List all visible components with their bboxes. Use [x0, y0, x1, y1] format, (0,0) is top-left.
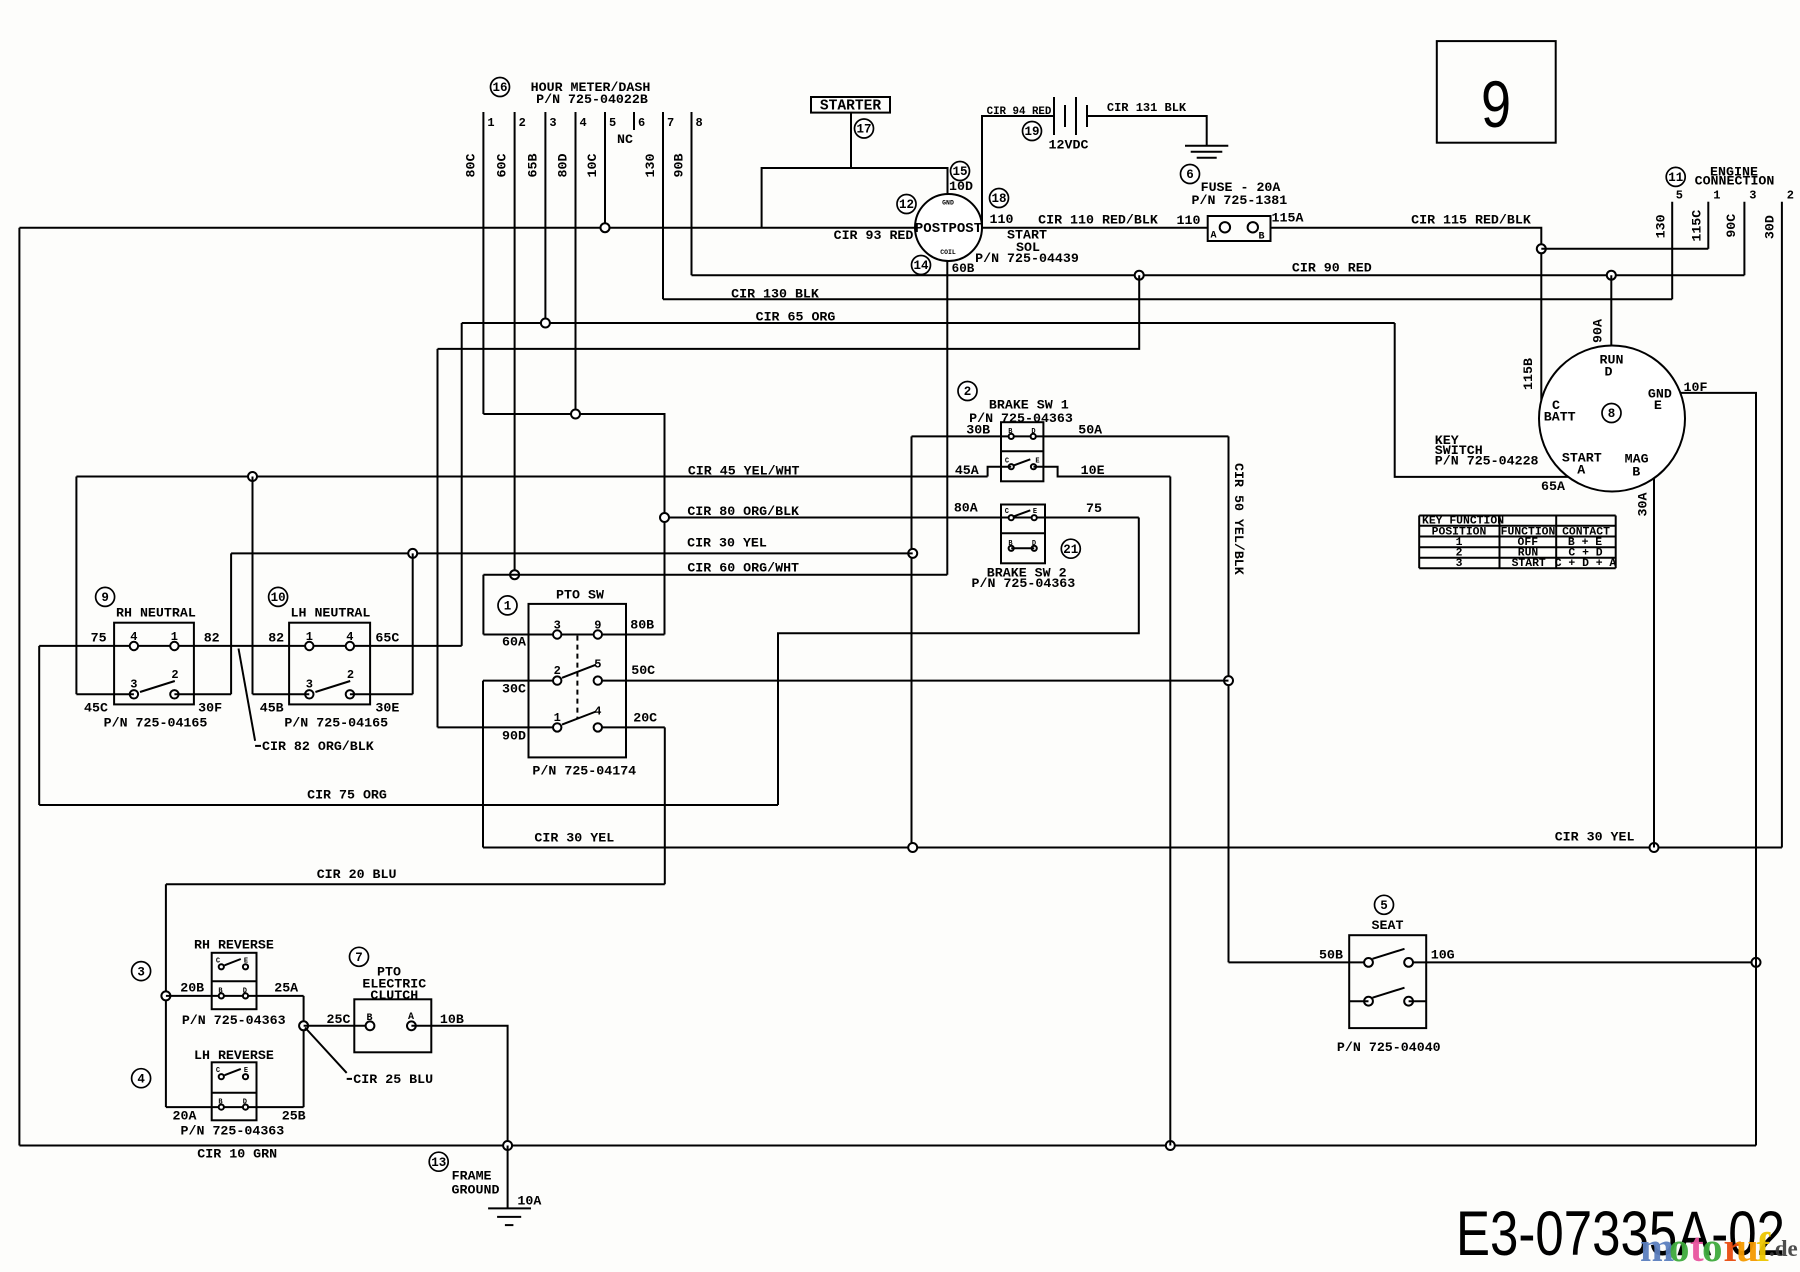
seat contacts row2 with arm — [1364, 997, 1373, 1006]
svg-text:B: B — [1632, 465, 1640, 480]
wire CIR 20 BLU — [166, 883, 665, 885]
wire 60A/80B row — [483, 634, 664, 636]
frame ground (item 13) — [429, 1152, 448, 1171]
svg-text:10: 10 — [271, 591, 286, 605]
wire main bus left border vertical — [18, 228, 20, 1146]
svg-text:FRAME: FRAME — [452, 1168, 492, 1183]
svg-text:60B: 60B — [952, 262, 975, 276]
svg-text:D: D — [1032, 540, 1036, 548]
hour meter pin 8 wire (90B) — [691, 112, 693, 275]
junction 30B-CIR30 upper — [908, 549, 917, 558]
svg-text:16: 16 — [492, 81, 507, 95]
LH neutral switch (item 10) — [269, 587, 288, 606]
svg-text:CIR 20 BLU: CIR 20 BLU — [317, 867, 397, 882]
wire main bus y227 left segment — [19, 227, 915, 229]
svg-text:CIR 93 RED: CIR 93 RED — [834, 228, 914, 243]
svg-text:P/N 725-04174: P/N 725-04174 — [532, 764, 636, 779]
svg-text:E: E — [1654, 398, 1662, 413]
starter box (item 17) — [811, 97, 890, 113]
junction 30A on CIR30 lower — [1650, 843, 1659, 852]
svg-text:B: B — [1258, 232, 1264, 243]
svg-text:o: o — [1702, 1224, 1723, 1270]
svg-text:4: 4 — [346, 630, 353, 644]
svg-text:30C: 30C — [502, 682, 526, 697]
svg-text:50A: 50A — [1078, 422, 1102, 437]
wire 45C vertical — [75, 477, 77, 695]
RH reverse switch (item 3) — [132, 962, 151, 981]
svg-text:D: D — [1031, 428, 1035, 436]
junction CIR90-90 bus — [1135, 271, 1144, 280]
svg-text:P/N 725-04165: P/N 725-04165 — [284, 715, 388, 730]
svg-text:45B: 45B — [260, 701, 284, 716]
svg-text:D: D — [243, 1099, 247, 1107]
svg-text:CIR 110 RED/BLK: CIR 110 RED/BLK — [1038, 213, 1158, 228]
svg-text:10A: 10A — [517, 1194, 541, 1209]
svg-text:90D: 90D — [502, 729, 526, 744]
svg-text:1: 1 — [1713, 189, 1720, 203]
hour meter pin 1 wire (80C) — [482, 112, 484, 414]
fuse 20A (item 6) — [1181, 165, 1200, 184]
svg-text:C: C — [216, 957, 220, 965]
wire 25A down to node — [303, 996, 305, 1107]
svg-text:14: 14 — [913, 259, 929, 273]
svg-text:3: 3 — [137, 965, 145, 979]
svg-text:o: o — [1669, 1224, 1690, 1270]
junction 20B — [161, 991, 170, 1000]
svg-text:130: 130 — [1653, 214, 1668, 238]
svg-text:1: 1 — [504, 600, 512, 614]
callout CIR 82 ORG/BLK — [239, 649, 256, 741]
svg-text:75: 75 — [91, 630, 107, 645]
hour meter pin 6 wire (NC) — [633, 112, 635, 130]
hour meter/dash component label (item 16) — [491, 78, 510, 97]
svg-text:.de: .de — [1769, 1236, 1798, 1261]
LH neutral contacts row2 with arm — [305, 690, 313, 698]
svg-text:18: 18 — [991, 192, 1006, 206]
svg-text:25B: 25B — [282, 1108, 306, 1123]
svg-text:110: 110 — [1177, 213, 1201, 228]
svg-text:65A: 65A — [1541, 479, 1565, 494]
svg-text:E: E — [1033, 508, 1037, 516]
wire 10F — [1680, 393, 1756, 1146]
wire CIR 45 YEL/WHT — [76, 476, 987, 478]
svg-text:CIR 30 YEL: CIR 30 YEL — [687, 535, 767, 550]
svg-text:1: 1 — [554, 711, 561, 725]
wire CIR 60 ORG/WHT — [483, 574, 947, 576]
wire 45B vertical — [252, 477, 254, 695]
wire 10E step — [1034, 467, 1171, 477]
svg-text:8: 8 — [1608, 407, 1616, 421]
hour meter pin 4 wire (80D) — [575, 112, 577, 414]
svg-text:82: 82 — [204, 630, 220, 645]
svg-text:3: 3 — [130, 678, 137, 692]
brake1 contacts B D — [1009, 434, 1014, 439]
svg-text:10D: 10D — [949, 179, 973, 194]
wire 50B — [1229, 961, 1369, 963]
svg-text:9: 9 — [1481, 67, 1511, 141]
svg-text:3: 3 — [1749, 189, 1756, 203]
svg-text:P/N 725-04363: P/N 725-04363 — [972, 576, 1076, 591]
svg-text:2: 2 — [1787, 189, 1794, 203]
engine pin 5 wire 130 — [1671, 202, 1673, 300]
svg-text:GROUND: GROUND — [452, 1183, 500, 1198]
wire 30C vertical — [482, 681, 484, 848]
svg-text:45C: 45C — [84, 701, 108, 716]
wire 20A/25B row — [166, 1106, 304, 1108]
svg-text:80B: 80B — [630, 618, 654, 633]
wire 30F row — [174, 693, 231, 695]
svg-text:30A: 30A — [1635, 493, 1650, 517]
svg-text:CIR 90 RED: CIR 90 RED — [1292, 261, 1372, 276]
battery 12VDC (item 19) — [1053, 97, 1055, 135]
svg-text:82: 82 — [268, 630, 284, 645]
brake1 contacts C E with arm — [1009, 464, 1014, 469]
wire 30E row — [350, 693, 413, 695]
RH neutral switch (item 9) — [96, 587, 115, 606]
wire 30E vertical — [412, 553, 414, 694]
wire 45A step — [988, 467, 1012, 477]
svg-text:CONNECTION: CONNECTION — [1695, 174, 1775, 189]
svg-text:10B: 10B — [440, 1012, 464, 1027]
svg-text:P/N 725-04439: P/N 725-04439 — [975, 251, 1079, 266]
wire 75 path — [778, 518, 1139, 806]
svg-text:25A: 25A — [274, 981, 298, 996]
svg-text:COIL: COIL — [940, 249, 956, 256]
wire 115C to engine — [1541, 248, 1708, 250]
svg-text:3: 3 — [306, 678, 313, 692]
svg-text:80A: 80A — [954, 501, 978, 516]
svg-text:60C: 60C — [495, 154, 510, 178]
svg-text:NC: NC — [617, 132, 633, 147]
wire CIR 30 YEL lower — [483, 847, 1782, 849]
svg-text:LH NEUTRAL: LH NEUTRAL — [291, 606, 371, 621]
svg-text:30D: 30D — [1762, 215, 1777, 239]
RH neutral contacts row1 — [130, 642, 138, 650]
junction CIR80-80B — [660, 513, 669, 522]
svg-text:A: A — [408, 1012, 414, 1023]
svg-text:C + D + A: C + D + A — [1555, 558, 1617, 570]
PTO switch (item 1) — [498, 596, 517, 615]
svg-text:BATT: BATT — [1544, 410, 1576, 425]
wire 25C — [304, 1025, 370, 1027]
PTO contacts 1 4 with arm — [553, 723, 561, 731]
wire 90D/20C row — [438, 726, 558, 728]
svg-text:RH REVERSE: RH REVERSE — [194, 938, 274, 953]
svg-text:20B: 20B — [180, 981, 204, 996]
brake switch 2 (item 21) — [1061, 539, 1080, 558]
svg-text:CIR 60 ORG/WHT: CIR 60 ORG/WHT — [687, 560, 799, 575]
wire 60A vertical — [482, 575, 484, 635]
svg-text:25C: 25C — [327, 1012, 351, 1027]
svg-text:START: START — [1512, 558, 1546, 570]
svg-text:130: 130 — [643, 154, 658, 178]
svg-text:65B: 65B — [525, 154, 540, 178]
svg-text:CIR 10 GRN: CIR 10 GRN — [197, 1147, 277, 1162]
svg-text:E: E — [244, 957, 248, 965]
svg-text:A: A — [1577, 463, 1585, 478]
junction pin2 60C — [510, 570, 519, 579]
svg-text:9: 9 — [594, 619, 601, 633]
svg-text:12VDC: 12VDC — [1049, 138, 1089, 153]
svg-text:10F: 10F — [1684, 380, 1708, 395]
svg-text:GND: GND — [942, 200, 954, 207]
hour meter pin 7 wire (130) — [662, 112, 664, 299]
brake switch 1 (item 2) — [958, 382, 977, 401]
clutch contacts B A — [366, 1021, 375, 1030]
junction pin4 80D — [571, 410, 580, 419]
brake2 contacts C E with arm — [1009, 515, 1014, 520]
key switch (item 8) — [1539, 346, 1685, 492]
svg-text:PTO SW: PTO SW — [556, 588, 604, 603]
RH neutral contacts row2 with arm — [130, 690, 138, 698]
svg-text:P/N 725-04228: P/N 725-04228 — [1435, 453, 1539, 468]
svg-text:B: B — [366, 1013, 372, 1024]
wire CIR 10 GRN — [19, 1145, 1756, 1147]
wire CIR 65 ORG — [462, 322, 1395, 324]
svg-text:90C: 90C — [1724, 214, 1739, 238]
engine pin 1 wire 115C — [1707, 202, 1709, 249]
svg-text:CIR 82 ORG/BLK: CIR 82 ORG/BLK — [262, 739, 374, 754]
wire CIR 75 ORG — [39, 804, 778, 806]
wire 45B row — [253, 693, 310, 695]
svg-text:4: 4 — [137, 1072, 145, 1086]
engine pin 2 wire 30D — [1781, 202, 1783, 848]
svg-text:D: D — [1605, 365, 1613, 380]
svg-text:4: 4 — [130, 630, 137, 644]
svg-text:110: 110 — [990, 212, 1014, 227]
svg-text:4: 4 — [580, 116, 587, 130]
svg-text:CIR 131 BLK: CIR 131 BLK — [1107, 101, 1187, 115]
seat switch (item 5) — [1375, 895, 1394, 914]
wire 20C vertical — [664, 727, 666, 884]
wire 45C row — [76, 693, 133, 695]
svg-text:5: 5 — [1380, 899, 1388, 913]
svg-text:20C: 20C — [633, 711, 657, 726]
junction 30E on CIR30 — [408, 549, 417, 558]
svg-text:15: 15 — [952, 165, 967, 179]
svg-text:5: 5 — [1676, 189, 1683, 203]
svg-text:u: u — [1736, 1224, 1759, 1270]
svg-text:CIR 30 YEL: CIR 30 YEL — [1555, 829, 1635, 844]
svg-text:17: 17 — [856, 123, 871, 137]
LH neutral contacts row1 — [305, 642, 313, 650]
wire 30A — [1653, 478, 1655, 847]
svg-text:80C: 80C — [463, 154, 478, 178]
svg-text:2: 2 — [171, 668, 178, 682]
svg-text:CIR 75 ORG: CIR 75 ORG — [307, 788, 387, 803]
svg-text:7: 7 — [667, 116, 674, 130]
svg-text:75: 75 — [1086, 501, 1102, 516]
svg-text:2: 2 — [347, 668, 354, 682]
svg-text:20A: 20A — [173, 1108, 197, 1123]
PTO contacts 2 5 with arm — [553, 676, 561, 684]
wire coil 60B down to CIR 60 — [946, 261, 948, 575]
PTO contacts 3 9 — [553, 630, 561, 638]
battery ground symbol — [1185, 145, 1228, 147]
wire 10E vertical — [1169, 477, 1171, 1146]
wire 65A — [1395, 323, 1569, 477]
svg-text:10G: 10G — [1431, 947, 1455, 962]
svg-text:P/N 725-04022B: P/N 725-04022B — [536, 92, 648, 107]
wire circuit 80 bus y414 — [483, 414, 664, 635]
wire 115A fuse to key switch — [1271, 228, 1542, 401]
wire CIR 94 RED battery to solenoid — [982, 116, 1054, 228]
engine pin 3 wire 90C — [1743, 202, 1745, 276]
wire 90D vertical — [437, 349, 439, 728]
wire CIR 90 RED — [692, 274, 1745, 276]
svg-text:115B: 115B — [1521, 358, 1536, 390]
svg-text:LH REVERSE: LH REVERSE — [194, 1048, 274, 1063]
svg-text:C: C — [216, 1067, 220, 1075]
wire CIR 75 ORG left vertical — [38, 646, 40, 805]
wire 20B vertical — [165, 884, 167, 1107]
svg-text:RH NEUTRAL: RH NEUTRAL — [116, 606, 196, 621]
junction 10B on CIR10 — [503, 1141, 512, 1150]
svg-text:1: 1 — [171, 630, 178, 644]
svg-text:CIR 30 YEL: CIR 30 YEL — [534, 831, 614, 846]
wire CIR 80 / 80A / 75 row — [665, 517, 1139, 519]
svg-text:SEAT: SEAT — [1372, 918, 1404, 933]
wire CIR 131 BLK battery to ground — [1087, 116, 1207, 146]
junction 45B on CIR45 — [248, 472, 257, 481]
svg-text:8: 8 — [696, 116, 703, 130]
svg-text:3: 3 — [549, 116, 556, 130]
svg-text:CIR 65 ORG: CIR 65 ORG — [756, 310, 836, 325]
LH reverse switch (item 4) — [132, 1069, 151, 1088]
wire 10G — [1409, 961, 1756, 963]
svg-text:D: D — [243, 987, 247, 995]
wire 90A to key switch — [1610, 275, 1612, 345]
wire 50A vertical — [1228, 436, 1230, 962]
wire circuit 90 bus y349 — [438, 275, 1140, 349]
svg-text:3: 3 — [1456, 558, 1463, 570]
svg-text:CLUTCH: CLUTCH — [370, 988, 418, 1003]
svg-text:11: 11 — [1668, 171, 1683, 185]
junction pin5 10C on main bus — [601, 223, 610, 232]
page number 9 box — [1437, 41, 1556, 143]
wire 75/82/65C row — [39, 645, 462, 647]
svg-text:C: C — [1005, 457, 1009, 465]
junction CIR90-90A — [1607, 271, 1616, 280]
svg-text:115A: 115A — [1272, 211, 1304, 226]
svg-text:3: 3 — [554, 619, 561, 633]
wire 30C/50C row — [483, 680, 557, 682]
svg-text:P/N 725-04363: P/N 725-04363 — [182, 1013, 286, 1028]
svg-text:90B: 90B — [672, 154, 687, 178]
wire 30B/50A row — [912, 435, 1229, 437]
svg-text:9: 9 — [101, 591, 109, 605]
svg-text:P/N 725-04040: P/N 725-04040 — [1337, 1040, 1441, 1055]
svg-text:5: 5 — [609, 116, 616, 130]
junction 10G on 10F vertical — [1752, 958, 1761, 967]
svg-text:6: 6 — [1186, 168, 1194, 182]
svg-text:30B: 30B — [966, 422, 990, 437]
svg-text:90A: 90A — [1590, 319, 1605, 343]
RH reverse contacts C E with arm — [219, 964, 224, 969]
svg-text:A: A — [1210, 231, 1216, 242]
wire starter to solenoid node — [850, 113, 852, 168]
svg-text:CIR 115 RED/BLK: CIR 115 RED/BLK — [1411, 213, 1531, 228]
svg-text:7: 7 — [355, 951, 363, 965]
svg-text:10C: 10C — [585, 154, 600, 178]
engine connection (item 11) — [1666, 167, 1685, 186]
svg-text:CIR 94 RED: CIR 94 RED — [987, 106, 1052, 118]
svg-text:CIR 25 BLU: CIR 25 BLU — [353, 1072, 433, 1087]
svg-text:1: 1 — [487, 116, 494, 130]
svg-text:CIR 130 BLK: CIR 130 BLK — [731, 287, 819, 302]
svg-text:E: E — [244, 1067, 248, 1075]
junction 30B on CIR30 lower — [908, 843, 917, 852]
svg-text:P/N 725-04363: P/N 725-04363 — [181, 1124, 285, 1139]
wire CIR 30 YEL upper — [231, 552, 913, 554]
wire 30B vertical — [911, 436, 913, 847]
svg-text:CIR 50 YEL/BLK: CIR 50 YEL/BLK — [1231, 463, 1246, 575]
svg-text:13: 13 — [431, 1156, 446, 1170]
svg-text:E: E — [1035, 457, 1039, 465]
wire 65C vertical — [461, 323, 463, 646]
svg-text:POSTPOST: POSTPOST — [915, 221, 982, 237]
PTO dashed link — [576, 636, 578, 719]
wire 110 solenoid to fuse — [982, 227, 1208, 229]
svg-text:19: 19 — [1024, 125, 1039, 139]
RH reverse contacts B D — [219, 993, 224, 998]
wire 30F vertical — [230, 553, 232, 694]
svg-text:115C: 115C — [1690, 210, 1705, 242]
junction 50A-50C — [1224, 676, 1233, 685]
svg-text:P/N 725-04165: P/N 725-04165 — [104, 715, 208, 730]
junction 115 node — [1537, 244, 1546, 253]
PTO electric clutch (item 7) — [350, 947, 369, 966]
start solenoid POSTPOST (item 12) — [915, 194, 982, 261]
wire CIR 130 BLK — [663, 298, 1672, 300]
svg-text:21: 21 — [1063, 543, 1078, 557]
svg-text:6: 6 — [638, 116, 645, 130]
hour meter pin 3 wire (65B) — [544, 112, 546, 323]
svg-text:C: C — [1005, 508, 1009, 516]
svg-text:2: 2 — [519, 116, 526, 130]
seat contacts row1 with arm — [1364, 958, 1373, 967]
key function table — [1419, 515, 1616, 517]
svg-text:80D: 80D — [556, 154, 571, 178]
svg-text:50B: 50B — [1319, 947, 1343, 962]
hour meter pin 2 wire (60C) — [514, 112, 516, 575]
junction 10E on CIR10 — [1166, 1141, 1175, 1150]
svg-text:30E: 30E — [375, 701, 399, 716]
svg-text:2: 2 — [554, 664, 561, 678]
wire 10B — [411, 1026, 507, 1146]
svg-text:12: 12 — [899, 198, 914, 212]
svg-text:2: 2 — [964, 385, 972, 399]
junction pin3 65B on CIR 65 — [541, 319, 550, 328]
hour meter pin 5 wire (10C) — [604, 112, 606, 228]
svg-text:P/N 725-1381: P/N 725-1381 — [1192, 193, 1288, 208]
LH reverse contacts B D — [219, 1105, 224, 1110]
svg-text:60A: 60A — [502, 635, 526, 650]
brake2 contacts B D connected — [1009, 546, 1014, 551]
svg-text:65C: 65C — [375, 630, 399, 645]
callout CIR 25 BLU — [305, 1028, 347, 1073]
svg-text:30F: 30F — [198, 701, 222, 716]
svg-text:STARTER: STARTER — [820, 99, 882, 115]
svg-text:CIR 80 ORG/BLK: CIR 80 ORG/BLK — [687, 504, 799, 519]
wire 20B/25A row — [166, 995, 304, 997]
svg-text:1: 1 — [306, 630, 313, 644]
LH reverse contacts C E with arm — [219, 1074, 224, 1079]
junction 25 node — [299, 1021, 308, 1030]
svg-text:50C: 50C — [631, 663, 655, 678]
wire node line y168 — [762, 168, 948, 228]
